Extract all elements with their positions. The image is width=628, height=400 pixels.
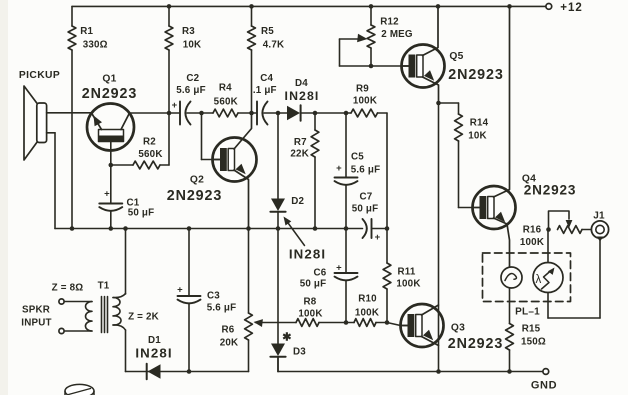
svg-text:+: + bbox=[375, 232, 381, 243]
svg-text:50 μF: 50 μF bbox=[300, 279, 327, 290]
svg-text:4.7K: 4.7K bbox=[263, 40, 285, 51]
svg-text:Z = 8Ω: Z = 8Ω bbox=[52, 283, 84, 294]
svg-text:+: + bbox=[177, 285, 183, 296]
svg-text:INPUT: INPUT bbox=[21, 318, 51, 329]
svg-text:+: + bbox=[104, 189, 110, 200]
svg-text:150Ω: 150Ω bbox=[521, 337, 546, 348]
svg-text:5.6 μF: 5.6 μF bbox=[176, 85, 206, 96]
svg-text:PICKUP: PICKUP bbox=[19, 70, 60, 81]
svg-text:C4: C4 bbox=[260, 73, 273, 84]
svg-text:D2: D2 bbox=[291, 196, 304, 207]
svg-text:50 μF: 50 μF bbox=[128, 208, 155, 219]
svg-text:+: + bbox=[336, 163, 342, 174]
svg-text:+: + bbox=[336, 263, 342, 274]
svg-text:Z = 2K: Z = 2K bbox=[128, 312, 159, 323]
svg-text:Q3: Q3 bbox=[451, 323, 465, 334]
svg-text:2N2923: 2N2923 bbox=[82, 86, 137, 102]
svg-text:+12: +12 bbox=[560, 2, 583, 14]
svg-text:100K: 100K bbox=[353, 96, 377, 107]
svg-text:R7: R7 bbox=[294, 137, 307, 148]
svg-text:2 MEG: 2 MEG bbox=[381, 29, 413, 40]
svg-text:R5: R5 bbox=[261, 26, 274, 37]
svg-text:560K: 560K bbox=[138, 149, 162, 160]
svg-text:5.6 μF: 5.6 μF bbox=[351, 165, 381, 176]
svg-text:D1: D1 bbox=[148, 335, 161, 346]
svg-text:R15: R15 bbox=[522, 324, 541, 335]
svg-text:D4: D4 bbox=[295, 78, 308, 89]
svg-text:Q1: Q1 bbox=[102, 73, 116, 84]
svg-text:IN28I: IN28I bbox=[135, 346, 172, 361]
svg-text:λ: λ bbox=[536, 274, 542, 286]
svg-text:IN28I: IN28I bbox=[285, 89, 320, 103]
svg-text:R9: R9 bbox=[356, 84, 369, 95]
svg-text:IN28I: IN28I bbox=[289, 247, 326, 262]
svg-text:R8: R8 bbox=[304, 297, 317, 308]
svg-text:R4: R4 bbox=[219, 83, 232, 94]
svg-text:2N2923: 2N2923 bbox=[448, 336, 503, 352]
svg-text:2N2923: 2N2923 bbox=[167, 188, 222, 204]
svg-text:R10: R10 bbox=[358, 294, 377, 305]
svg-text:330Ω: 330Ω bbox=[83, 40, 108, 51]
svg-text:10K: 10K bbox=[183, 40, 202, 51]
svg-text:T1: T1 bbox=[98, 281, 110, 292]
svg-text:✱: ✱ bbox=[282, 332, 291, 344]
svg-text:R11: R11 bbox=[397, 267, 415, 278]
svg-text:.1 μF: .1 μF bbox=[253, 85, 277, 96]
svg-text:2N2923: 2N2923 bbox=[524, 182, 576, 197]
svg-text:100K: 100K bbox=[520, 237, 544, 248]
svg-text:R12: R12 bbox=[380, 17, 399, 28]
svg-text:D3: D3 bbox=[293, 347, 306, 358]
svg-text:5.6 μF: 5.6 μF bbox=[207, 303, 237, 314]
svg-text:R6: R6 bbox=[222, 325, 235, 336]
svg-text:Q5: Q5 bbox=[449, 51, 463, 62]
svg-text:22K: 22K bbox=[290, 149, 309, 160]
svg-text:C7: C7 bbox=[360, 192, 373, 203]
svg-text:20K: 20K bbox=[220, 338, 239, 349]
svg-text:GND: GND bbox=[531, 380, 557, 392]
svg-text:C6: C6 bbox=[314, 268, 327, 279]
svg-text:PL–1: PL–1 bbox=[515, 307, 540, 318]
svg-text:50 μF: 50 μF bbox=[352, 204, 379, 215]
svg-text:R3: R3 bbox=[182, 26, 195, 37]
svg-text:R14: R14 bbox=[470, 118, 489, 129]
svg-text:C3: C3 bbox=[207, 291, 220, 302]
svg-text:R16: R16 bbox=[523, 225, 542, 236]
svg-text:R1: R1 bbox=[80, 26, 93, 37]
svg-text:100K: 100K bbox=[355, 308, 379, 319]
svg-text:SPKR: SPKR bbox=[22, 305, 50, 316]
svg-text:Q2: Q2 bbox=[190, 175, 204, 186]
svg-text:C5: C5 bbox=[351, 152, 364, 163]
svg-text:2N2923: 2N2923 bbox=[448, 67, 503, 83]
svg-text:C2: C2 bbox=[186, 73, 199, 84]
svg-text:J1: J1 bbox=[593, 211, 605, 222]
svg-text:100K: 100K bbox=[298, 309, 322, 320]
svg-text:R2: R2 bbox=[143, 137, 156, 148]
svg-text:10K: 10K bbox=[468, 131, 487, 142]
svg-text:100K: 100K bbox=[396, 279, 420, 290]
svg-text:560K: 560K bbox=[214, 97, 238, 108]
svg-text:+: + bbox=[172, 100, 178, 111]
